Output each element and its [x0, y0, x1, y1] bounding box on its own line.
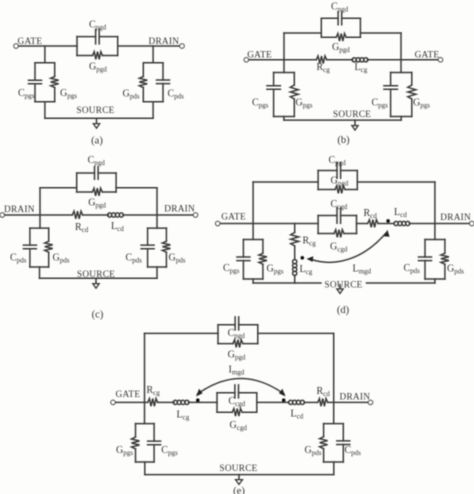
parallel RC box Cpgs/Gpgs left (b) — [274, 73, 295, 117]
source bus (a) — [45, 117, 153, 119]
svg-text:(e): (e) — [233, 486, 245, 494]
resistor Rcg (e) — [148, 399, 158, 407]
wire left box to bus (e) — [144, 462, 146, 475]
ground arrow SOURCE (c) — [95, 278, 97, 284]
terminal DRAIN (a) — [180, 44, 184, 48]
terminal DRAIN (d) — [470, 221, 474, 225]
wire drain shunt stub (a) — [152, 46, 154, 63]
svg-text:GATE: GATE — [247, 50, 272, 60]
svg-text:GATE: GATE — [18, 37, 43, 47]
svg-text:DRAIN: DRAIN — [164, 204, 195, 214]
ground arrow SOURCE (b) — [354, 120, 356, 126]
parallel RC box Cpgd/Gpgd (b) — [321, 18, 360, 37]
parallel RC box Cpgs/Gpgs right (b) — [391, 73, 412, 117]
wire gate-drain (a) — [118, 45, 182, 47]
polarity dot right (e) — [282, 398, 286, 402]
terminal DRAIN left (c) — [2, 214, 72, 216]
inductor Lcd (d) — [394, 221, 398, 225]
terminal DRAIN (e) — [368, 400, 372, 404]
wire top-left riser (b) — [283, 33, 285, 73]
wire middle to Lcd (e) — [257, 401, 289, 403]
ground arrow SOURCE (d) — [339, 285, 341, 290]
parallel RC box Cpds/Gpds (d) — [425, 240, 445, 280]
source bus (c) — [40, 277, 158, 279]
svg-text:DRAIN: DRAIN — [340, 392, 371, 402]
polarity dot Lcd (d) — [386, 219, 390, 223]
wire right box to bus (d) — [434, 279, 436, 283]
parallel RC box Cpds/Gpds left (c) — [30, 228, 49, 267]
resistor Rcd (d) — [368, 220, 378, 228]
wire drain box to source bus (a) — [152, 102, 154, 119]
inductor Lcg (b) — [352, 58, 356, 62]
terminal GATE (d) — [218, 223, 318, 225]
polarity dot left (e) — [196, 398, 200, 402]
resistor Rcg (d) — [291, 232, 299, 246]
wire gate shunt stub (a) — [44, 46, 46, 63]
wire top-left riser (c) — [39, 188, 41, 228]
svg-text:DRAIN: DRAIN — [440, 213, 471, 223]
resistor Rcd (c) — [72, 211, 82, 219]
wire Rcg branch from gate wire (d) — [294, 224, 296, 233]
wire top-left riser (d) — [252, 182, 254, 240]
wire top-right riser (c) — [156, 188, 158, 228]
mutual inductance arrow Imgd (e) — [198, 379, 285, 395]
resistor Rcd (e) — [318, 399, 328, 407]
wire middle to Rcd (d) — [357, 223, 368, 225]
terminal GATE (a) — [16, 45, 77, 47]
svg-text:GATE: GATE — [221, 213, 246, 223]
ground arrow SOURCE (e) — [238, 475, 240, 480]
svg-text:(c): (c) — [92, 310, 104, 321]
parallel RC box Ccgd/Gcgd (e) — [217, 393, 257, 413]
resistor Rcg (b) — [316, 56, 326, 64]
parallel RC box Cpgs/Gpgs (d) — [243, 240, 263, 280]
wire left box to bus (b) — [283, 117, 285, 121]
svg-text:DRAIN: DRAIN — [4, 205, 35, 215]
svg-text:(a): (a) — [91, 136, 103, 147]
wire top-right riser (e) — [333, 333, 335, 423]
wire left box to bus (c) — [39, 267, 41, 278]
inductor Lcg (e) — [173, 400, 177, 404]
parallel RC box Cpgd/Gpgd (a) — [77, 37, 118, 56]
svg-text:GATE: GATE — [415, 50, 440, 60]
source bus (b) — [284, 119, 401, 121]
svg-text:SOURCE: SOURCE — [76, 106, 114, 116]
wire gate box to source bus (a) — [44, 102, 46, 119]
source bus (d) — [253, 282, 321, 284]
terminal DRAIN right (c) — [193, 213, 197, 217]
polarity dot Lcg (d) — [301, 256, 305, 260]
wire top-right riser (b) — [400, 33, 402, 73]
svg-text:(d): (d) — [337, 305, 350, 316]
ground arrow SOURCE (a) — [96, 118, 98, 124]
svg-text:(b): (b) — [337, 135, 350, 146]
mutual inductance arrow Lmgd (d) — [312, 234, 386, 263]
wire right box to bus (e) — [333, 462, 335, 475]
parallel RC box Gpds/Cpds (e) — [324, 424, 344, 462]
svg-text:GATE: GATE — [116, 390, 141, 400]
parallel RC box Cpgd/Gpgd (d) — [318, 171, 357, 190]
wire left box to bus (d) — [252, 279, 254, 283]
inductor Lcd (e) — [289, 400, 293, 404]
terminal GATE left (b) — [246, 59, 316, 61]
inductor Lcd (c) — [108, 213, 112, 217]
parallel RC box Ccgd/Gcgd (d) — [318, 216, 356, 234]
parallel RC box Gpds/Cpds (a) — [143, 63, 163, 102]
parallel RC box Cpds/Gpds right (c) — [148, 228, 167, 267]
source bus (e) — [145, 474, 334, 476]
parallel RC box Cpgd/Gpgd (c) — [77, 173, 116, 192]
svg-text:SOURCE: SOURCE — [333, 110, 371, 120]
parallel RC box Cpgs/Gpgs (a) — [35, 63, 55, 102]
terminal GATE right (b) — [438, 58, 442, 62]
parallel RC box Gpgs/Cpgs (e) — [136, 424, 155, 462]
inductor Lcg (d) — [293, 260, 297, 264]
terminal GATE (e) — [113, 401, 148, 403]
parallel RC box Cpgd/Gpgd (e) — [218, 325, 258, 344]
wire top-left riser (e) — [144, 333, 146, 423]
svg-text:SOURCE: SOURCE — [219, 464, 257, 474]
wire right box to bus (c) — [156, 267, 158, 278]
wire top-right riser (d) — [434, 182, 436, 240]
wire right box to bus (b) — [400, 117, 402, 121]
